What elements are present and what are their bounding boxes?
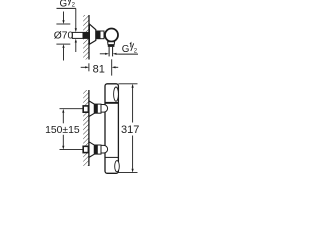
svg-text:Ø70: Ø70 (54, 30, 74, 41)
svg-text:317: 317 (121, 124, 139, 136)
svg-text:81: 81 (93, 64, 105, 76)
svg-text:150±15: 150±15 (45, 125, 80, 136)
